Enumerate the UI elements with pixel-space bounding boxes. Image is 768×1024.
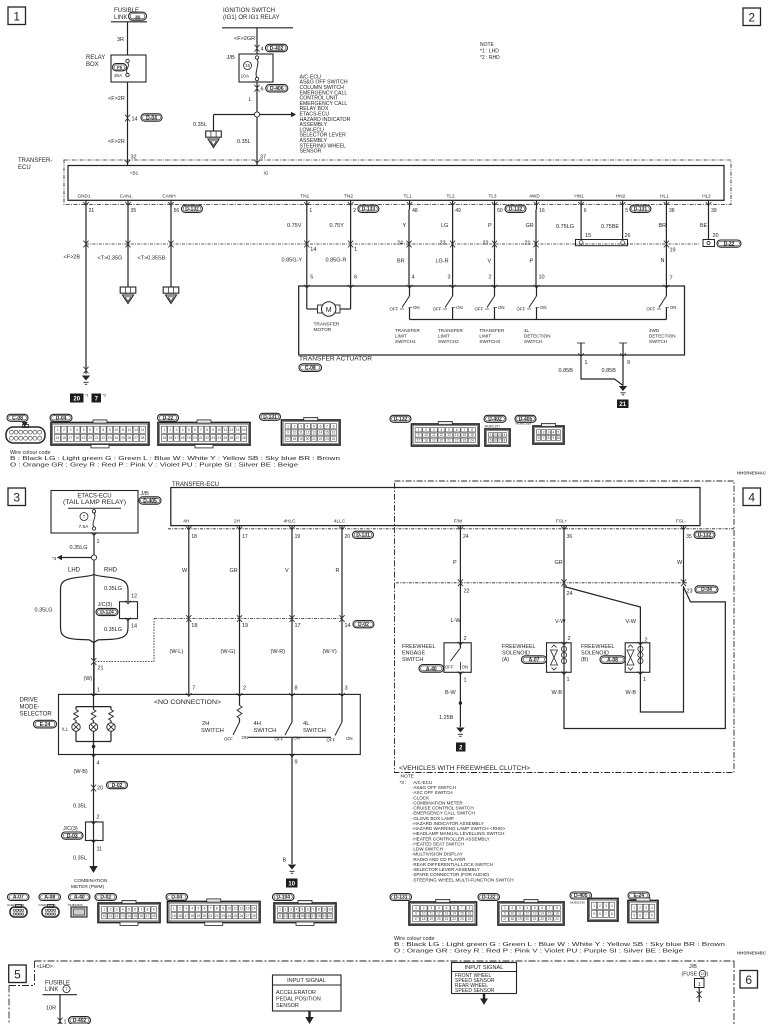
inline connector D-04 pin 14	[125, 115, 130, 118]
svg-text:15: 15	[460, 912, 464, 916]
svg-text:ON: ON	[670, 305, 677, 310]
svg-text:28: 28	[141, 436, 145, 440]
svg-text:20: 20	[193, 436, 197, 440]
svg-text:(W-L): (W-L)	[170, 649, 184, 655]
FSL- return to solenoid A	[564, 587, 725, 729]
svg-text:13: 13	[134, 428, 138, 432]
svg-text:20: 20	[97, 786, 103, 792]
svg-text:(B): (B)	[581, 657, 588, 663]
svg-text:17: 17	[175, 436, 179, 440]
HN2 wire to resistor pack	[622, 210, 624, 240]
svg-text:7: 7	[463, 428, 465, 432]
switch common bus	[248, 736, 331, 738]
svg-text:28: 28	[242, 436, 246, 440]
svg-text:2: 2	[63, 428, 65, 432]
svg-text:8: 8	[611, 912, 613, 916]
svg-text:22: 22	[101, 436, 105, 440]
svg-text:<T>0.35SB: <T>0.35SB	[138, 256, 166, 262]
svg-text:<F>2R: <F>2R	[108, 139, 125, 145]
svg-text:J/C(3): J/C(3)	[98, 602, 113, 608]
svg-text:V: V	[488, 259, 492, 265]
GND1 wire to body ground	[85, 210, 87, 375]
page marker 3	[8, 488, 26, 506]
svg-text:21: 21	[199, 436, 203, 440]
svg-text:M: M	[326, 307, 332, 314]
svg-text:IG: IG	[263, 171, 268, 177]
svg-text:4LLC: 4LLC	[334, 518, 346, 523]
svg-text:<F>2GR: <F>2GR	[234, 36, 255, 42]
svg-text:15: 15	[245, 63, 251, 68]
svg-text:4L: 4L	[303, 721, 310, 727]
svg-text:A-40: A-40	[426, 666, 437, 672]
actuator output pins 1 and 9	[577, 342, 585, 344]
svg-text:16: 16	[332, 431, 336, 435]
svg-text:26: 26	[240, 914, 244, 918]
svg-text:BE: BE	[700, 223, 708, 229]
svg-text:3: 3	[499, 433, 501, 437]
svg-text:2: 2	[543, 430, 545, 434]
svg-text:L: L	[249, 97, 252, 103]
svg-text:31: 31	[89, 208, 95, 214]
svg-text:1: 1	[163, 428, 165, 432]
svg-text:C-08: C-08	[12, 415, 23, 421]
4H wire	[188, 529, 190, 695]
svg-text:6: 6	[538, 436, 540, 440]
svg-text:D-131: D-131	[356, 533, 370, 539]
splice node with *3 arrow	[91, 555, 96, 560]
svg-text:15: 15	[56, 436, 60, 440]
svg-text:2: 2	[353, 208, 356, 214]
svg-text:4: 4	[504, 433, 506, 437]
svg-text:9: 9	[222, 907, 224, 911]
svg-text:27: 27	[246, 914, 250, 918]
svg-text:0.35L: 0.35L	[73, 804, 87, 810]
svg-text:14: 14	[131, 624, 137, 630]
svg-text:5: 5	[301, 908, 303, 912]
svg-text:3: 3	[345, 686, 348, 692]
svg-text:OFF: OFF	[327, 738, 336, 743]
svg-text:26: 26	[230, 436, 234, 440]
svg-text:6: 6	[453, 906, 455, 910]
svg-text:27: 27	[236, 436, 240, 440]
svg-text:2H: 2H	[234, 518, 240, 523]
svg-text:D-406: D-406	[270, 86, 284, 92]
svg-text:C-08: C-08	[305, 366, 316, 372]
svg-text:9: 9	[212, 428, 214, 432]
svg-text:14: 14	[141, 428, 145, 432]
svg-text:13: 13	[289, 914, 293, 918]
svg-text:19: 19	[323, 914, 327, 918]
svg-text:15: 15	[585, 233, 591, 239]
svg-text:TRANSFER-: TRANSFER-	[18, 158, 52, 164]
svg-text:8: 8	[556, 906, 558, 910]
svg-text:10: 10	[328, 908, 332, 912]
svg-text:23: 23	[325, 437, 329, 441]
inline connector D-402 pin 4	[254, 45, 259, 48]
transfer ECU dashed boundary	[64, 160, 731, 205]
svg-text:0.85B: 0.85B	[559, 368, 574, 374]
svg-text:1: 1	[698, 982, 701, 988]
svg-text:ON: ON	[346, 736, 353, 741]
svg-text:23: 23	[687, 589, 693, 595]
svg-text:INPUT SIGNAL: INPUT SIGNAL	[287, 978, 326, 984]
svg-text:14: 14	[252, 907, 256, 911]
connector D-405 (3/4)	[570, 892, 592, 899]
input signal accelerator box	[273, 975, 342, 1011]
svg-text:12: 12	[526, 912, 530, 916]
svg-text:D-104: D-104	[276, 895, 290, 901]
svg-text:D-04: D-04	[701, 587, 712, 593]
svg-text:J/B: J/B	[141, 491, 150, 497]
svg-text:20: 20	[203, 914, 207, 918]
svg-text:(W-G): (W-G)	[221, 649, 236, 655]
branch to solenoid B	[564, 587, 640, 643]
svg-text:0.35LG: 0.35LG	[104, 586, 122, 592]
svg-text:BR: BR	[397, 259, 405, 265]
drive mode selector box E-24	[59, 694, 361, 754]
svg-text:HL2: HL2	[702, 193, 711, 198]
svg-text:COMBINATION: COMBINATION	[74, 878, 108, 884]
svg-text:2: 2	[285, 908, 287, 912]
svg-text:HN2: HN2	[616, 193, 626, 198]
arrow from wheel speed box	[483, 994, 485, 999]
svg-text:<NO CONNECTION>: <NO CONNECTION>	[154, 699, 221, 706]
svg-text:IGNITION SWITCH: IGNITION SWITCH	[223, 8, 275, 14]
svg-text:9: 9	[295, 760, 298, 766]
svg-text:D-132: D-132	[698, 533, 712, 539]
svg-text:27: 27	[134, 436, 138, 440]
svg-text:0.75LG: 0.75LG	[556, 224, 574, 230]
svg-text:(W): (W)	[84, 676, 93, 682]
F/W wire	[459, 529, 461, 643]
svg-text:ON: ON	[462, 665, 468, 670]
svg-text:SWITCH: SWITCH	[649, 339, 667, 344]
svg-text:5: 5	[593, 912, 595, 916]
svg-text:O : Orange GR : Grey: O : Orange GR : Grey R : Red P : Pink V …	[394, 948, 683, 954]
svg-text:7: 7	[461, 906, 463, 910]
HL1 wire	[665, 210, 667, 287]
connector C-08	[7, 414, 28, 421]
svg-text:D-22: D-22	[724, 241, 735, 247]
svg-text:*3: *3	[52, 556, 57, 561]
connector D-405	[515, 415, 536, 422]
arrow from accelerator box	[308, 1011, 310, 1017]
svg-text:24: 24	[463, 534, 469, 540]
svg-text:15: 15	[133, 914, 137, 918]
svg-text:10R: 10R	[46, 1006, 56, 1012]
svg-text:24: 24	[470, 438, 474, 442]
svg-text:36: 36	[135, 14, 141, 19]
svg-text:14: 14	[132, 117, 138, 123]
svg-text:3: 3	[448, 275, 451, 281]
svg-text:*1 : LHD: *1 : LHD	[480, 49, 499, 55]
svg-text:35: 35	[131, 208, 137, 214]
svg-text:O : Orange GR : Grey: O : Orange GR : Grey R : Red P : Pink V …	[10, 462, 298, 468]
svg-text:5: 5	[534, 906, 536, 910]
svg-text:HHSR4E04BC: HHSR4E04BC	[737, 951, 767, 956]
svg-text:17: 17	[312, 914, 316, 918]
svg-text:1: 1	[103, 908, 105, 912]
svg-text:4: 4	[76, 428, 78, 432]
svg-text:SENSOR: SENSOR	[300, 149, 322, 155]
4L switch	[341, 694, 343, 722]
svg-text:D-22: D-22	[163, 415, 174, 421]
svg-text:P: P	[488, 223, 492, 229]
svg-text:1: 1	[279, 908, 281, 912]
TL2 wire	[452, 210, 454, 287]
svg-text:9: 9	[627, 360, 630, 366]
transfer limit switch 3	[494, 286, 496, 296]
svg-text:TRANSFER: TRANSFER	[438, 328, 463, 333]
svg-text:D-402: D-402	[73, 1018, 87, 1024]
svg-text:6: 6	[494, 438, 496, 442]
svg-text:6: 6	[261, 87, 264, 93]
svg-text:20: 20	[306, 437, 310, 441]
svg-text:4L: 4L	[524, 328, 530, 333]
svg-text:RELAY: RELAY	[86, 55, 105, 61]
svg-text:1: 1	[415, 906, 417, 910]
svg-text:4: 4	[261, 47, 264, 53]
svg-text:12: 12	[440, 433, 444, 437]
svg-text:8: 8	[469, 906, 471, 910]
svg-text:16: 16	[555, 912, 559, 916]
svg-text:11: 11	[234, 907, 238, 911]
CANH wire	[170, 210, 172, 288]
svg-text:15: 15	[162, 436, 166, 440]
svg-text:3: 3	[430, 906, 432, 910]
wires to ground 21	[581, 358, 623, 386]
transfer limit switch 1	[409, 286, 411, 296]
transfer actuator box C-08	[299, 286, 685, 355]
connector A-08	[39, 894, 61, 901]
svg-text:MU801939: MU801939	[516, 422, 532, 426]
svg-text:ON: ON	[413, 305, 420, 310]
svg-text:J/B: J/B	[227, 55, 236, 61]
svg-text:17: 17	[184, 914, 188, 918]
svg-text:D-405: D-405	[143, 498, 157, 504]
svg-text:9: 9	[553, 436, 555, 440]
svg-text:7: 7	[140, 908, 142, 912]
svg-text:1: 1	[418, 428, 420, 432]
svg-text:MOTOR: MOTOR	[314, 327, 332, 333]
svg-text:0.85B: 0.85B	[602, 368, 617, 374]
svg-text:10: 10	[422, 912, 426, 916]
svg-text:D-03: D-03	[67, 833, 78, 839]
svg-text:7.5A: 7.5A	[79, 524, 90, 530]
svg-text:8: 8	[318, 908, 320, 912]
svg-text:5: 5	[313, 425, 315, 429]
svg-text:4H: 4H	[183, 518, 189, 523]
svg-text:ON: ON	[456, 305, 463, 310]
CANL wire	[127, 210, 129, 288]
svg-text:FREEWHEEL: FREEWHEEL	[502, 644, 536, 650]
svg-text:(W-Y): (W-Y)	[323, 649, 337, 655]
svg-text:(TAIL LAMP RELAY): (TAIL LAMP RELAY)	[63, 500, 126, 506]
svg-text:OFF: OFF	[517, 307, 526, 312]
svg-text:8: 8	[102, 428, 104, 432]
svg-text:3: 3	[548, 430, 550, 434]
wire relay box to ECU pin 32	[127, 82, 129, 166]
dashed link from splice 21	[94, 619, 154, 662]
transfer motor	[306, 286, 308, 309]
svg-text:2: 2	[294, 425, 296, 429]
svg-text:3: 3	[70, 428, 72, 432]
svg-text:8: 8	[216, 907, 218, 911]
harness junction dash line	[86, 243, 700, 245]
svg-text:ON: ON	[242, 735, 249, 740]
svg-text:23: 23	[463, 438, 467, 442]
svg-text:1: 1	[490, 433, 492, 437]
svg-text:8: 8	[471, 428, 473, 432]
svg-text:4: 4	[526, 906, 528, 910]
svg-text:17: 17	[414, 917, 418, 921]
svg-text:B : Black LG : Light gree: B : Black LG : Light green G : Green L :…	[10, 456, 340, 462]
svg-text:3: 3	[13, 491, 20, 505]
svg-text:21: 21	[95, 436, 99, 440]
svg-text:2: 2	[97, 815, 100, 821]
svg-text:7: 7	[499, 438, 501, 442]
svg-text:8: 8	[206, 428, 208, 432]
svg-text:TL3: TL3	[488, 193, 496, 198]
svg-text:14: 14	[295, 914, 299, 918]
svg-text:36: 36	[567, 534, 573, 540]
svg-text:4: 4	[191, 907, 193, 911]
svg-text:15: 15	[325, 431, 329, 435]
svg-text:MU801939: MU801939	[570, 901, 585, 905]
svg-text:22: 22	[452, 917, 456, 921]
svg-text:8: 8	[548, 436, 550, 440]
svg-text:14: 14	[319, 431, 323, 435]
svg-text:7: 7	[83, 514, 86, 519]
svg-text:V-W: V-W	[626, 619, 637, 625]
svg-text:21: 21	[525, 241, 531, 247]
svg-text:4HLC: 4HLC	[284, 518, 297, 523]
svg-text:DETECTION: DETECTION	[649, 334, 676, 339]
svg-text:0.35L: 0.35L	[73, 856, 87, 862]
svg-text:2: 2	[110, 908, 112, 912]
svg-text:5: 5	[557, 430, 559, 434]
svg-text:18: 18	[422, 917, 426, 921]
svg-text:5: 5	[625, 208, 628, 214]
svg-text:LINK: LINK	[114, 15, 127, 21]
connector D-22	[158, 414, 179, 421]
svg-text:HHSR4E04AC: HHSR4E04AC	[737, 471, 767, 476]
svg-text:ILL: ILL	[62, 727, 69, 732]
svg-text:GR: GR	[555, 560, 563, 566]
svg-text:1: 1	[64, 1020, 67, 1024]
svg-text:11: 11	[224, 428, 228, 432]
svg-text:): )	[707, 972, 709, 978]
svg-text:20: 20	[713, 233, 719, 239]
svg-text:15: 15	[548, 912, 552, 916]
svg-text:56: 56	[174, 208, 180, 214]
svg-text:21: 21	[447, 438, 451, 442]
svg-text:18: 18	[424, 438, 428, 442]
svg-text:11: 11	[121, 428, 125, 432]
svg-text:26: 26	[625, 233, 631, 239]
svg-text:35: 35	[686, 534, 692, 540]
freewheel engage switch A-40	[444, 643, 471, 673]
svg-text:SWITCH: SWITCH	[524, 339, 542, 344]
svg-text:(FUSE: (FUSE	[682, 972, 698, 978]
svg-text:D-132: D-132	[509, 207, 523, 213]
svg-text:FSL+: FSL+	[556, 518, 568, 523]
svg-text:<F>2B: <F>2B	[64, 255, 81, 261]
svg-text:SWITCH: SWITCH	[201, 728, 224, 734]
svg-text:20: 20	[526, 917, 530, 921]
svg-text:16: 16	[62, 436, 66, 440]
branch to local ground	[214, 114, 255, 116]
svg-text:2: 2	[489, 275, 492, 281]
svg-text:4: 4	[122, 908, 124, 912]
svg-text:2H: 2H	[202, 721, 209, 727]
connector D-132 (3/4)	[478, 894, 500, 901]
svg-text:D-131: D-131	[394, 895, 408, 901]
svg-text:20: 20	[437, 917, 441, 921]
connector E-24	[628, 892, 650, 899]
svg-text:7: 7	[200, 428, 202, 432]
svg-text:13: 13	[121, 914, 125, 918]
TN1 wire	[306, 210, 308, 287]
svg-text:D-02: D-02	[358, 622, 369, 628]
svg-text:50: 50	[497, 208, 503, 214]
svg-text:(W-B): (W-B)	[74, 769, 88, 775]
svg-text:10: 10	[539, 275, 545, 281]
svg-text:0.75BE: 0.75BE	[601, 224, 619, 230]
svg-text:7: 7	[312, 908, 314, 912]
svg-text:DRIVE: DRIVE	[20, 698, 38, 704]
svg-text:14: 14	[452, 912, 456, 916]
svg-text:0.75V: 0.75V	[287, 223, 302, 229]
FSL- wire	[683, 529, 685, 583]
page marker 5	[9, 965, 27, 983]
FSL+ wire	[563, 529, 565, 643]
transfer ECU box	[68, 166, 724, 201]
svg-text:1: 1	[567, 677, 570, 683]
transfer limit switch 2	[452, 286, 454, 296]
svg-text:10: 10	[115, 428, 119, 432]
svg-text:Wire colour code: Wire colour code	[10, 450, 50, 456]
svg-text:2: 2	[179, 907, 181, 911]
svg-text:ECU: ECU	[18, 165, 31, 171]
svg-text:MODE-: MODE-	[20, 705, 40, 711]
svg-text:17: 17	[286, 437, 290, 441]
svg-text:12: 12	[306, 431, 310, 435]
svg-text:TL2: TL2	[447, 193, 455, 198]
junction dotted row (4)	[396, 582, 688, 584]
svg-text:12: 12	[115, 914, 119, 918]
svg-text:LIMIT: LIMIT	[438, 334, 450, 339]
svg-text:30A: 30A	[114, 73, 123, 78]
4WD wire	[535, 210, 537, 287]
svg-text:16: 16	[178, 914, 182, 918]
svg-text:18: 18	[293, 437, 297, 441]
svg-text:7: 7	[645, 914, 647, 918]
svg-text:W-B: W-B	[626, 690, 637, 696]
svg-text:6: 6	[134, 908, 136, 912]
svg-text:14: 14	[455, 433, 459, 437]
svg-text:FSL-: FSL-	[676, 518, 687, 523]
svg-text:0.85G-R: 0.85G-R	[326, 258, 347, 264]
svg-text:15: 15	[172, 914, 176, 918]
svg-text:7: 7	[549, 906, 551, 910]
ground 21	[619, 386, 627, 391]
svg-text:24: 24	[397, 241, 403, 247]
svg-text:D-131: D-131	[263, 414, 277, 420]
svg-text:1: 1	[504, 906, 506, 910]
svg-text:ON: ON	[498, 305, 505, 310]
freewheel solenoid B	[625, 643, 650, 673]
